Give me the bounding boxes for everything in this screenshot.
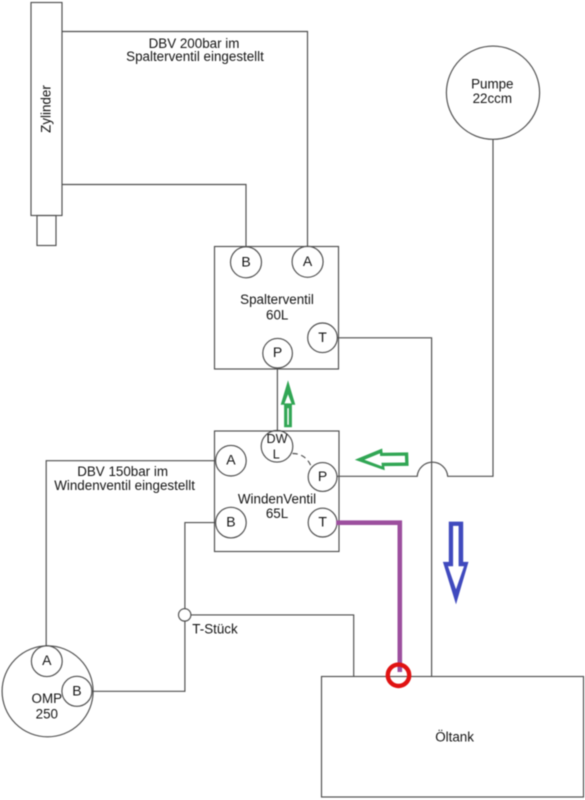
svg-text:L: L [273,447,280,461]
svg-text:A: A [42,652,52,668]
svg-text:65L: 65L [266,506,288,521]
svg-text:Pumpe: Pumpe [471,76,513,91]
svg-text:22ccm: 22ccm [473,91,512,106]
svg-text:T: T [318,514,327,530]
svg-text:OMP: OMP [32,691,63,706]
svg-text:250: 250 [36,706,58,721]
svg-text:A: A [303,253,313,269]
svg-text:Öltank: Öltank [435,729,474,744]
svg-text:B: B [72,682,81,698]
svg-text:DW: DW [267,432,288,446]
svg-text:A: A [226,452,236,468]
svg-text:B: B [226,514,235,530]
svg-text:B: B [241,253,250,269]
svg-text:Windenventil eingestellt: Windenventil eingestellt [54,478,195,493]
svg-text:Zylinder: Zylinder [39,85,54,133]
svg-text:Spalterventil: Spalterventil [240,292,314,307]
svg-text:60L: 60L [266,307,288,322]
svg-text:WindenVentil: WindenVentil [238,491,316,506]
svg-text:T: T [318,329,327,345]
svg-text:P: P [273,344,282,360]
svg-text:DBV 150bar im: DBV 150bar im [77,464,168,479]
svg-text:Spalterventil eingestellt: Spalterventil eingestellt [126,49,264,64]
svg-text:T-Stück: T-Stück [192,622,238,637]
svg-text:P: P [318,468,327,484]
